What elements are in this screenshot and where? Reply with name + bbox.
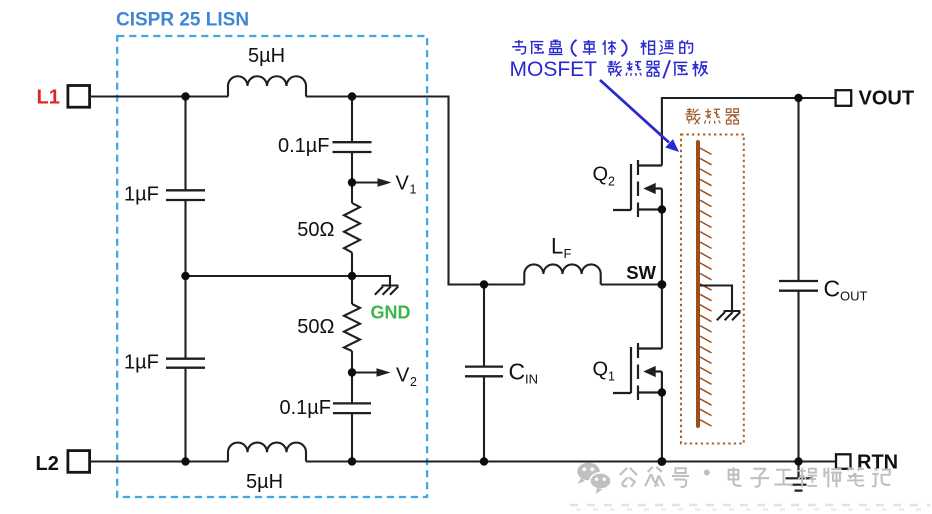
earth ground at RTN	[786, 462, 812, 491]
svg-text:V: V	[396, 365, 410, 387]
svg-text:C: C	[824, 276, 841, 302]
terminal RTN box	[836, 454, 851, 469]
wire LISN right branch vertical	[351, 97, 353, 462]
capacitor COUT	[779, 281, 818, 291]
capacitor 0.1uF lower	[333, 403, 371, 413]
resistor 50ohm lower	[344, 304, 360, 351]
wire Q1 source to bottom rail	[661, 393, 663, 462]
svg-text:C: C	[509, 359, 526, 385]
transistor Q2	[613, 160, 662, 217]
svg-text:MOSFET: MOSFET	[510, 58, 598, 81]
blue annotation arrow	[600, 80, 679, 152]
terminal L1	[68, 86, 90, 108]
svg-text:VOUT: VOUT	[859, 88, 915, 110]
terminal VOUT box	[836, 90, 852, 106]
svg-text:Q: Q	[593, 359, 609, 381]
wire SW to Q1 drain	[661, 285, 663, 349]
arrow tap V1	[352, 178, 392, 187]
capacitor 1uF lower	[166, 359, 205, 368]
wire COUT branch	[797, 98, 799, 462]
inductor 5uH bottom	[228, 443, 306, 462]
top right rail to VOUT	[662, 98, 836, 166]
svg-text:SW: SW	[626, 262, 656, 283]
svg-text:V: V	[396, 173, 410, 195]
annotation line 1: yu di pan ( che ti ) xiang lian de	[512, 40, 692, 57]
svg-text:CISPR 25 LISN: CISPR 25 LISN	[116, 10, 249, 31]
svg-text:2: 2	[410, 375, 417, 389]
wire LF to SW node	[601, 283, 662, 285]
mid rail wire with ground stub	[186, 276, 391, 286]
svg-text:Q: Q	[593, 164, 609, 186]
svg-text:L: L	[551, 234, 563, 259]
heatsink ground stub wire	[700, 286, 732, 312]
svg-text:1: 1	[410, 183, 417, 197]
wire LISN left branch vertical	[184, 97, 186, 462]
svg-text:2: 2	[608, 175, 615, 189]
svg-text:GND: GND	[371, 303, 411, 323]
resistor 50ohm upper	[344, 203, 360, 253]
svg-text:0.1µF: 0.1µF	[279, 397, 331, 419]
capacitor CIN	[465, 367, 503, 377]
chassis ground at heatsink	[717, 311, 741, 320]
svg-text:1µF: 1µF	[124, 184, 159, 206]
heatsink baseplate bar	[696, 142, 700, 426]
chassis ground GND symbol	[375, 286, 399, 295]
svg-text:F: F	[564, 246, 572, 261]
wire CIN branch	[483, 285, 485, 462]
wire L1 to node A	[90, 95, 228, 97]
inductor 5uH top	[228, 76, 306, 96]
faint cropped watermark row at bottom	[570, 505, 930, 510]
annotation line 2: MOSFET san re qi / di ban	[510, 58, 708, 81]
capacitor 1uF upper	[166, 190, 205, 200]
svg-text:5µH: 5µH	[246, 471, 283, 493]
LISN dashed boundary box	[117, 36, 427, 497]
svg-text:1µF: 1µF	[124, 352, 159, 374]
svg-text:0.1µF: 0.1µF	[278, 135, 330, 157]
arrow tap V2	[352, 368, 391, 377]
heatsink dashed box	[681, 135, 744, 444]
svg-text:50Ω: 50Ω	[297, 219, 334, 241]
heatsink hatch lines	[700, 148, 712, 426]
transistor Q1	[613, 343, 662, 400]
watermark wechat icon	[577, 463, 611, 494]
svg-text:IN: IN	[525, 372, 538, 387]
svg-text:L2: L2	[36, 453, 59, 475]
bottom rail wire	[90, 460, 836, 462]
svg-text:1: 1	[608, 370, 615, 384]
heatsink label: san re qi (brown)	[685, 108, 739, 124]
watermark text: gong zhong hao dot dian zi gong cheng shi bi ji	[620, 467, 890, 487]
svg-text:L1: L1	[37, 87, 60, 109]
capacitor 0.1uF upper	[333, 142, 372, 152]
svg-text:OUT: OUT	[840, 289, 868, 304]
wire Q2 source to SW	[661, 210, 663, 285]
svg-text:5µH: 5µH	[248, 45, 285, 67]
wire top rail to LISN output corner	[306, 97, 524, 285]
inductor LF	[524, 264, 600, 284]
terminal L2	[68, 451, 90, 473]
svg-text:50Ω: 50Ω	[297, 316, 334, 338]
